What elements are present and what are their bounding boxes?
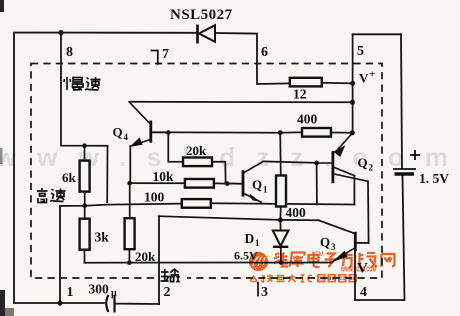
svg-text:5: 5 bbox=[357, 44, 364, 59]
svg-text:20k: 20k bbox=[186, 143, 207, 158]
svg-text:12: 12 bbox=[293, 87, 307, 102]
svg-text:2: 2 bbox=[369, 163, 374, 173]
svg-text:Q: Q bbox=[113, 125, 123, 140]
svg-text:10k: 10k bbox=[153, 169, 175, 184]
svg-text:6: 6 bbox=[261, 45, 268, 60]
svg-text:+: + bbox=[369, 69, 375, 81]
svg-text:2: 2 bbox=[164, 285, 171, 300]
svg-text:V: V bbox=[357, 261, 368, 277]
svg-text:V: V bbox=[359, 71, 369, 86]
svg-text:6k: 6k bbox=[62, 170, 77, 185]
svg-text:3: 3 bbox=[331, 242, 336, 252]
svg-text:D: D bbox=[245, 231, 255, 246]
svg-text:3k: 3k bbox=[95, 230, 110, 245]
svg-text:400: 400 bbox=[286, 205, 307, 220]
svg-text:1: 1 bbox=[255, 238, 260, 248]
svg-text:3: 3 bbox=[261, 285, 268, 300]
svg-text:4: 4 bbox=[360, 285, 367, 300]
svg-text:4: 4 bbox=[124, 132, 129, 142]
svg-text:1. 5V: 1. 5V bbox=[419, 171, 449, 186]
svg-text:Q: Q bbox=[320, 235, 330, 250]
svg-text:7: 7 bbox=[162, 47, 169, 62]
svg-text:300: 300 bbox=[89, 282, 110, 297]
svg-text:20k: 20k bbox=[135, 249, 156, 264]
svg-text:Q: Q bbox=[252, 177, 262, 192]
svg-text:6.5V: 6.5V bbox=[234, 249, 258, 263]
svg-text:Q: Q bbox=[358, 155, 368, 170]
svg-text:NSL5027: NSL5027 bbox=[170, 7, 233, 23]
svg-text:100: 100 bbox=[144, 190, 165, 205]
svg-text:TM: TM bbox=[315, 252, 324, 258]
svg-text:1: 1 bbox=[263, 185, 268, 195]
svg-text:400: 400 bbox=[297, 112, 318, 127]
svg-text:1: 1 bbox=[67, 285, 74, 300]
svg-text:μ: μ bbox=[111, 288, 117, 299]
svg-text:8: 8 bbox=[66, 45, 73, 60]
